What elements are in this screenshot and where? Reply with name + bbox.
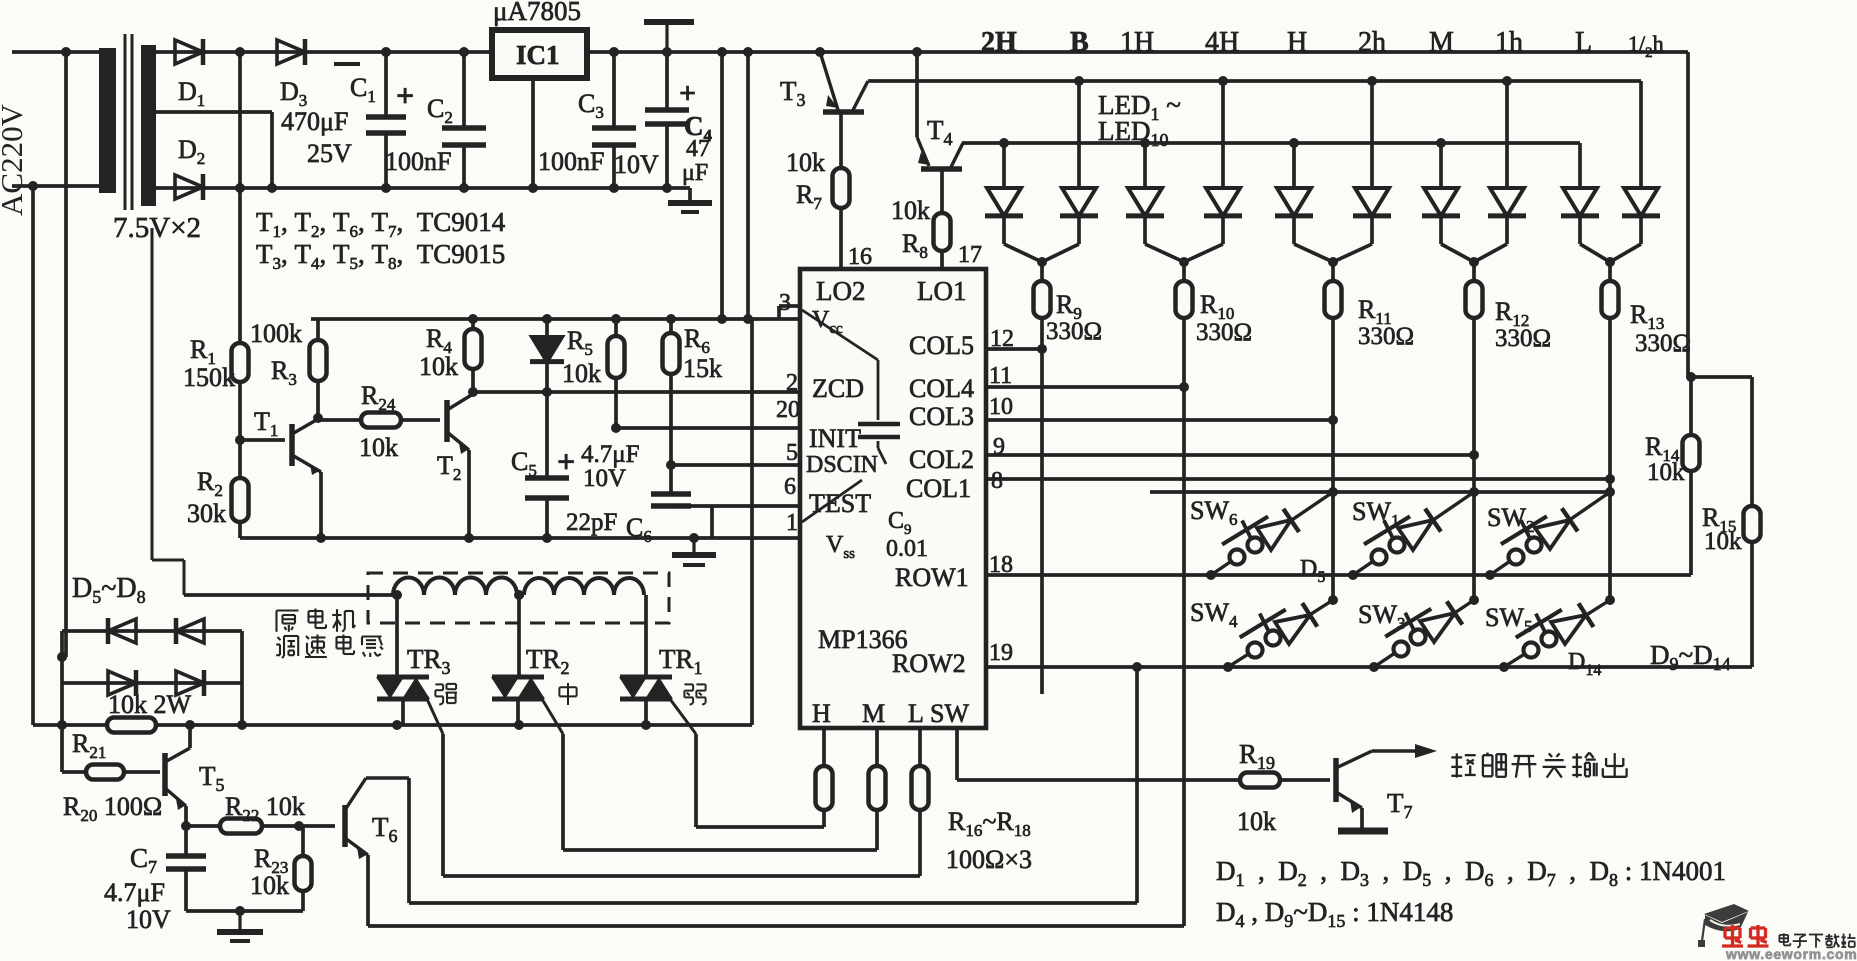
svg-text:100Ω×3: 100Ω×3 [946,845,1032,874]
svg-text:L: L [908,699,924,728]
svg-text:5: 5 [786,440,798,466]
svg-text:7.5V×2: 7.5V×2 [113,212,201,244]
svg-text:COL4: COL4 [909,374,974,403]
svg-text:SW: SW [930,699,969,728]
svg-text:D5~D8: D5~D8 [72,573,146,607]
svg-text:2h: 2h [1358,27,1386,58]
svg-text:10k: 10k [1647,459,1685,486]
svg-text:ZCD: ZCD [812,374,864,403]
svg-text:COL5: COL5 [909,331,974,360]
svg-text:15k: 15k [683,354,722,383]
svg-text:M: M [1429,27,1454,58]
svg-text:10k: 10k [1237,807,1276,836]
svg-text:10V: 10V [614,150,659,179]
svg-text:3: 3 [779,290,791,316]
svg-text:+: + [557,443,575,479]
svg-text:T3, T4, T5, T8, TC9015: T3, T4, T5, T8, TC9015 [256,239,505,273]
svg-text:100nF: 100nF [538,147,604,176]
svg-text:4H: 4H [1205,27,1239,58]
svg-text:H: H [1287,27,1307,58]
svg-text:10k: 10k [891,196,930,225]
svg-text:10k: 10k [786,148,825,177]
svg-text:30k: 30k [187,499,226,528]
svg-text:H: H [812,699,831,728]
svg-text:R20 100Ω: R20 100Ω [63,792,162,825]
svg-text:10k: 10k [250,871,289,900]
svg-text:1h: 1h [1495,27,1523,58]
svg-text:T1, T2, T6, T7, TC9014: T1, T2, T6, T7, TC9014 [256,207,506,241]
svg-text:6: 6 [784,474,796,500]
svg-text:LO1: LO1 [917,276,967,306]
svg-text:330Ω: 330Ω [1196,319,1252,346]
svg-text:IC1: IC1 [516,40,560,70]
svg-text:+: + [679,77,696,110]
svg-text:LO2: LO2 [816,276,866,306]
svg-text:1H: 1H [1120,27,1154,58]
svg-text:2H: 2H [981,27,1017,58]
svg-text:11: 11 [989,363,1012,389]
svg-text:ROW1: ROW1 [895,563,969,592]
svg-text:150k: 150k [183,363,235,392]
svg-text:D1 , D2 , D3 , D5 , D6: D1 , D2 , D3 , D5 , D6 , D7 , D8 : 1N400… [1216,856,1726,890]
svg-text:+: + [396,77,414,113]
svg-text:2: 2 [786,370,798,396]
svg-text:AC220V: AC220V [0,103,29,216]
svg-text:22pF: 22pF [566,509,617,536]
svg-text:1: 1 [786,510,798,536]
svg-text:M: M [862,699,885,728]
svg-text:25V: 25V [307,139,352,168]
svg-text:4.7μF: 4.7μF [104,878,165,907]
svg-text:COL3: COL3 [909,402,974,431]
svg-text:10V: 10V [126,905,171,934]
svg-text:17: 17 [958,242,982,268]
svg-text:0.01: 0.01 [886,536,928,562]
svg-text:10k: 10k [419,352,458,381]
svg-text:470μF: 470μF [281,107,348,136]
svg-text:R22 10k: R22 10k [225,792,305,825]
svg-text:B: B [1070,27,1089,58]
svg-text:100nF: 100nF [385,147,451,176]
svg-text:10k 2W: 10k 2W [108,690,192,719]
svg-text:19: 19 [989,640,1013,666]
svg-text:ROW2: ROW2 [892,649,966,678]
svg-text:10k: 10k [1704,528,1742,555]
svg-text:μF: μF [682,160,708,186]
svg-text:10k: 10k [562,359,601,388]
svg-text:COL2: COL2 [909,445,974,474]
svg-text:330Ω: 330Ω [1635,330,1691,357]
svg-text:4.7μF: 4.7μF [581,441,640,468]
svg-text:10V: 10V [583,465,626,492]
svg-text:COL1: COL1 [906,474,971,503]
svg-text:16: 16 [848,244,872,270]
svg-text:INIT: INIT [809,424,861,453]
svg-text:TEST: TEST [809,489,871,518]
svg-text:100k: 100k [250,319,302,348]
svg-text:8: 8 [991,468,1003,494]
svg-text:330Ω: 330Ω [1495,325,1551,352]
svg-text:330Ω: 330Ω [1046,318,1102,345]
svg-text:L: L [1575,27,1592,58]
svg-text:330Ω: 330Ω [1358,323,1414,350]
svg-text:20: 20 [776,397,800,423]
svg-text:DSCIN: DSCIN [806,452,878,478]
svg-text:10: 10 [989,394,1013,420]
svg-text:47: 47 [686,136,710,162]
svg-text:10k: 10k [359,433,398,462]
svg-text:μA7805: μA7805 [493,0,581,26]
svg-text:www.eeworm.com: www.eeworm.com [1725,946,1857,961]
